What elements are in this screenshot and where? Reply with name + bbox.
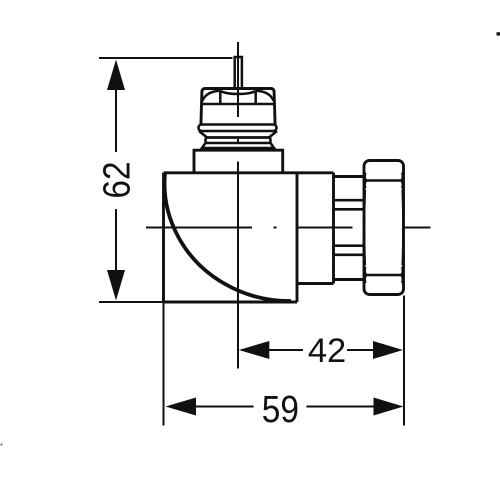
dim 59 arrow left: [166, 398, 197, 416]
hex nut chamfer cusps: [364, 173, 403, 284]
body left edge: [162, 173, 165, 302]
dim 62 line upper: [115, 88, 117, 152]
cap (gland nut) outline: [201, 89, 275, 125]
dim 42 arrow right: [373, 341, 403, 359]
cap facet line: [202, 103, 275, 106]
svg-text:42: 42: [308, 332, 346, 370]
dim 62 bottom extension line: [99, 301, 164, 303]
dim 62 arrow down: [107, 270, 125, 301]
dim 62 top extension line: [99, 57, 233, 59]
dim 62 arrow up: [107, 60, 125, 91]
body top edge (body + stage1): [164, 171, 334, 174]
stage1 adapter bottom edge: [297, 282, 334, 285]
ring 1: [199, 125, 277, 132]
dim 42 / 59 right extension line: [403, 296, 405, 426]
svg-text:59: 59: [262, 388, 299, 430]
hex nut facet line upper: [365, 179, 403, 182]
body right edge: [296, 173, 299, 302]
speck bottom-left: [1, 444, 3, 446]
svg-text:62: 62: [96, 161, 138, 198]
dim 42 line: [269, 349, 375, 351]
dim 59 arrow right: [374, 398, 404, 416]
body bottom edge: [164, 301, 298, 304]
hex nut facet line lower: [365, 274, 403, 277]
taper section: [199, 131, 277, 138]
stage2 bottom edge: [334, 278, 365, 281]
dim 59 line: [196, 406, 374, 408]
dim 59 left extension line: [163, 302, 165, 426]
cap chamfer arcs: [202, 91, 273, 105]
hex nut outline: [364, 161, 404, 295]
stem: [235, 57, 242, 89]
stage2 union top edge: [334, 175, 365, 178]
ring 2: [206, 138, 271, 144]
flange: [194, 150, 283, 173]
stage2 ridge lines: [334, 200, 365, 255]
flare: [202, 143, 274, 148]
centerline horizontal: [146, 227, 431, 229]
body quarter-round arc: [165, 173, 291, 301]
stage1 right edge: [332, 173, 335, 284]
dim 62 line lower: [115, 209, 117, 271]
centerline vertical: [237, 42, 239, 369]
edge artifact mark: [497, 32, 500, 35]
dim 42 arrow left: [239, 341, 269, 359]
hex nut chamfer cusp fills: [363, 176, 404, 281]
